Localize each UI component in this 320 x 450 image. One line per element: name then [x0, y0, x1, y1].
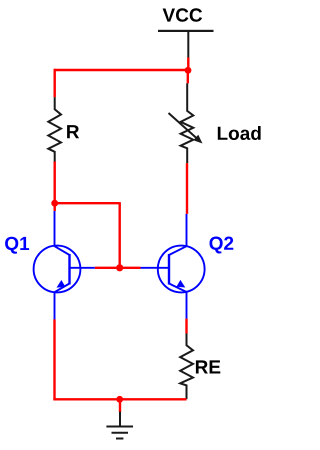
wire Load to Q2 collector	[186, 163, 188, 214]
wire base link vertical	[118, 202, 120, 268]
Load variable resistor	[169, 83, 203, 163]
wire bottom rail	[53, 398, 186, 400]
wire left branch upper (top rail to R)	[54, 69, 56, 97]
wire R to Q1 collector junction	[54, 162, 56, 212]
wire ground stem red segment	[119, 399, 121, 412]
resistor R	[48, 97, 61, 161]
VCC power symbol	[158, 30, 214, 58]
resistor RE	[180, 334, 193, 400]
transistor Q1	[34, 211, 95, 320]
wire collector junction to base link (horizontal)	[54, 202, 120, 204]
wire Q1 emitter to bottom rail	[53, 319, 55, 400]
wire VCC stem red segment	[187, 58, 189, 72]
wire top rail	[54, 69, 189, 71]
VCC label	[163, 8, 203, 21]
transistor Q2	[141, 214, 205, 319]
node ground junction	[116, 396, 123, 403]
wire base rail	[95, 267, 141, 269]
ground	[106, 412, 133, 439]
RE value label	[196, 360, 220, 373]
Load label	[218, 126, 261, 140]
wire Q2 emitter to RE	[185, 319, 187, 334]
Q2 label	[210, 237, 234, 254]
node Q1 collector junction	[51, 200, 58, 207]
node base rail junction	[116, 264, 123, 271]
node VCC junction	[185, 67, 192, 74]
R value label	[67, 125, 79, 138]
Q1 label	[5, 237, 29, 254]
wire Load top (junction to Load)	[187, 70, 189, 83]
